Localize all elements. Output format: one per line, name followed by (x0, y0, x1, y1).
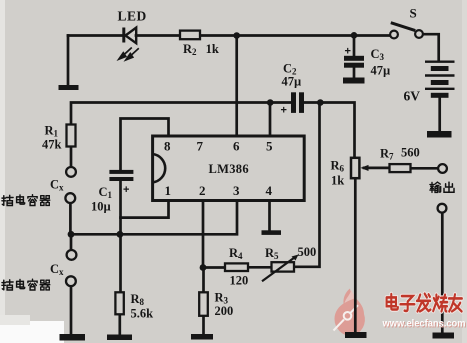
wire left drop to ground (67, 36, 70, 86)
ground (output jack) (433, 333, 455, 339)
wire R7 to output jack (411, 167, 439, 170)
node dot (left column y234) (68, 231, 75, 238)
potentiometer R6 (351, 158, 369, 178)
output jack circle 1 (438, 164, 447, 173)
label 输出 (430, 182, 454, 192)
wire pin6 vertical from rail (235, 36, 238, 137)
svg-text:S: S (410, 6, 417, 21)
wire R4 to R5 (248, 266, 272, 269)
wire long horizontal y102 (71, 103, 291, 125)
svg-text:1: 1 (165, 183, 172, 198)
wire R5 to riser (294, 103, 320, 267)
svg-text:2: 2 (199, 183, 206, 198)
ground (C3) (343, 78, 365, 84)
wire R6 bottom to ground (354, 178, 357, 333)
wire R3 stub (202, 268, 205, 293)
node dot (C1-R8/y234) (117, 231, 124, 238)
wire R1 to terminal (70, 147, 73, 168)
wire top rail R2 to switch (200, 34, 391, 37)
svg-text:+: + (123, 184, 129, 196)
svg-text:200: 200 (215, 304, 234, 318)
resistor R1 (67, 125, 76, 147)
label 插电容器 2 (2, 279, 50, 290)
svg-text:8: 8 (164, 139, 171, 154)
op-amp IC U1 LM386 body (153, 136, 305, 201)
label 插电容器 1 (2, 195, 50, 206)
wire R3 to ground (202, 316, 205, 335)
scan light right edge (462, 0, 467, 343)
ground (left column bottom) (60, 334, 86, 341)
ground (R3) (191, 334, 213, 340)
node dot (y102/pin5) (267, 99, 274, 106)
wire C3 to ground (353, 67, 356, 78)
svg-text:1k: 1k (331, 174, 344, 188)
svg-text:560: 560 (401, 146, 420, 160)
capacitor C1 (109, 170, 133, 181)
wire terminal4 down to ground (70, 286, 73, 334)
wire pin1 loop (121, 201, 169, 218)
node dot (rail/C3) (351, 32, 358, 39)
svg-text:+: + (281, 105, 287, 117)
capacitor C2 (291, 92, 304, 113)
terminal jack circle 2 (65, 193, 75, 203)
wire R8 to ground (118, 314, 121, 335)
node dot (y102/C2 right) (317, 99, 324, 106)
svg-text:47µ: 47µ (282, 75, 302, 89)
svg-text:4: 4 (266, 183, 273, 198)
svg-text:LM386: LM386 (209, 162, 249, 176)
ground (battery) (427, 131, 452, 138)
scan white edge left (0, 0, 5, 343)
wire pin8 L to C1 (121, 119, 169, 171)
node dot (rail/pin6) (233, 32, 240, 39)
ground (R8) (107, 335, 132, 341)
svg-text:6V: 6V (404, 89, 421, 104)
wire top rail LED to R2 (136, 34, 180, 37)
wire output jack2 to ground (441, 213, 444, 333)
wire C2 right to R6 corner (304, 103, 355, 159)
svg-text:www.elecfans.com: www.elecfans.com (382, 318, 466, 330)
resistor R3 (199, 292, 208, 316)
capacitor C3 (344, 56, 364, 68)
potentiometer R5 (262, 255, 299, 282)
terminal jack circle 1 (66, 167, 76, 177)
svg-text:6: 6 (233, 139, 240, 154)
ground (pin4) (262, 230, 282, 235)
terminal jack circle 4 (66, 276, 76, 286)
wire node to terminal3 (70, 234, 73, 250)
resistor R4 (225, 263, 248, 271)
resistor R2 (180, 31, 200, 40)
svg-text:5: 5 (266, 139, 273, 154)
wire top rail left segment (68, 34, 123, 37)
wire C1 bottom down to R8 (119, 181, 122, 293)
output jack circle 2 (438, 204, 447, 213)
svg-text:10µ: 10µ (91, 200, 111, 214)
wire pin2 down (202, 201, 205, 268)
scan white patch bottom-left (0, 321, 64, 343)
wire pin5 vertical (269, 103, 272, 137)
wire battery feed from switch (423, 34, 439, 61)
node dot (pin2/R3/R4) (200, 264, 207, 271)
battery B1 6V (425, 62, 455, 98)
svg-text:+: + (345, 46, 351, 58)
svg-text:5.6k: 5.6k (131, 307, 154, 321)
wire terminal2 down to node (69, 203, 72, 234)
ground (top-left) (59, 85, 79, 90)
svg-text:47µ: 47µ (371, 64, 391, 78)
watermark text 电子发烧友 (387, 294, 462, 312)
watermark logo flame (334, 289, 365, 337)
svg-text:3: 3 (233, 183, 240, 198)
resistor R8 (115, 292, 123, 314)
wire input row y234 (71, 201, 237, 235)
svg-text:120: 120 (230, 274, 249, 288)
svg-text:500: 500 (298, 245, 317, 259)
resistor R7 (390, 164, 411, 172)
LED D1 (119, 28, 139, 60)
svg-text:47k: 47k (42, 138, 62, 152)
ground (R6 bottom) (345, 332, 367, 338)
terminal jack circle 3 (67, 250, 77, 260)
svg-text:LED: LED (118, 9, 147, 24)
switch S (390, 23, 423, 39)
svg-text:7: 7 (197, 139, 204, 154)
wire pin4 ground stub (268, 201, 271, 231)
wire R4 to node (203, 266, 225, 269)
wire R6 wiper to R7 (364, 167, 390, 170)
wire battery to ground (438, 97, 441, 132)
wire C3 stub top (353, 36, 356, 57)
